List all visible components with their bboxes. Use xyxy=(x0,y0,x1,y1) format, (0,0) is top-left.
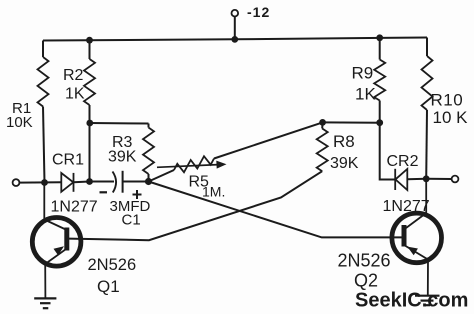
resistor R9 xyxy=(374,60,385,101)
svg-text:1K: 1K xyxy=(65,86,85,103)
wire Q2 collector xyxy=(404,179,426,230)
label minus sign C1 xyxy=(100,191,108,193)
wire rail to R1 xyxy=(42,41,44,58)
wire C1 right plate to node xyxy=(123,181,149,183)
arrow R5 wiper xyxy=(157,161,227,169)
wire input to CR1 xyxy=(19,181,61,183)
resistor R10 xyxy=(422,56,433,110)
wire node to C1 left plate xyxy=(90,181,115,183)
svg-text:2N526: 2N526 xyxy=(88,256,137,274)
node junction C1-R3-R5 xyxy=(145,178,152,185)
wire R3 to C1 node xyxy=(148,174,150,182)
node junction -12 on rail xyxy=(231,36,238,43)
node junction input-R1-Q1 collector xyxy=(41,179,48,186)
svg-text:10 K: 10 K xyxy=(433,108,469,127)
transistor Q2 base bar xyxy=(402,225,407,247)
wire output node to terminal xyxy=(426,178,451,180)
svg-text:R10: R10 xyxy=(431,91,464,110)
wire R10 to output node xyxy=(425,110,428,179)
node junction R9 top on rail xyxy=(376,34,383,41)
wire CR2 to output node xyxy=(407,178,426,181)
node junction CR1-R2 branch-C1 xyxy=(86,178,93,185)
svg-text:39K: 39K xyxy=(330,155,359,172)
wire -12 terminal stub xyxy=(234,16,236,39)
label plus sign C1 xyxy=(133,190,142,199)
wire R2 node down to CR1 node xyxy=(89,123,91,182)
ground Q1 xyxy=(34,298,56,308)
svg-text:CR1: CR1 xyxy=(52,152,84,169)
wire top supply rail xyxy=(43,38,427,41)
svg-text:R9: R9 xyxy=(352,64,374,83)
wire R8 node to R9 node xyxy=(323,121,380,123)
capacitor C1 straight plate xyxy=(122,171,124,193)
wire R5 to R8 node diagonal xyxy=(214,122,323,158)
diode CR1 xyxy=(61,173,73,192)
terminal input left xyxy=(13,179,20,186)
svg-text:-12: -12 xyxy=(247,4,270,20)
wire R2 to node xyxy=(89,105,91,123)
svg-text:1N277: 1N277 xyxy=(51,199,98,216)
svg-text:10K: 10K xyxy=(6,114,33,131)
svg-text:1M.: 1M. xyxy=(202,184,225,200)
resistor R3 xyxy=(143,128,154,175)
svg-text:Q2: Q2 xyxy=(354,271,378,291)
wire R1 to input node xyxy=(43,107,45,183)
svg-text:CR2: CR2 xyxy=(387,153,419,170)
resistor R2 xyxy=(84,59,95,105)
terminal -12 supply xyxy=(232,10,239,17)
resistor R5 xyxy=(174,156,214,172)
ground Q2 xyxy=(415,296,440,306)
wire node to R5 xyxy=(149,170,175,182)
transistor Q1 base bar xyxy=(64,228,69,251)
wire Q1 collector xyxy=(44,183,67,231)
arrow Q1 emitter xyxy=(54,246,65,255)
arrow Q2 emitter xyxy=(407,247,418,256)
resistor R8 xyxy=(317,129,328,172)
svg-text:39K: 39K xyxy=(108,149,137,166)
wire CR1 cathode to node xyxy=(74,181,90,184)
node junction R9 bottom xyxy=(376,119,383,126)
wire Q2 emitter xyxy=(404,245,428,296)
transistor Q1 body xyxy=(32,218,81,267)
diode CR2 xyxy=(395,169,407,190)
svg-text:R2: R2 xyxy=(63,67,84,84)
wire node to R3 top xyxy=(90,122,149,125)
terminal output right xyxy=(452,176,459,183)
wire rail corner to R10 xyxy=(426,38,428,57)
wire rail to R9 xyxy=(379,38,381,60)
wire rail to R2 xyxy=(89,40,91,59)
wire R3 top lead xyxy=(148,124,150,128)
wire Q1 emitter xyxy=(45,249,67,299)
node junction R8 top xyxy=(319,119,326,126)
wire R8 top lead xyxy=(321,122,323,128)
svg-text:Q1: Q1 xyxy=(97,277,120,296)
wire R9 to node xyxy=(379,101,381,123)
svg-text:C1: C1 xyxy=(122,212,141,229)
svg-text:SeekIC.com: SeekIC.com xyxy=(355,290,468,312)
svg-text:2N526: 2N526 xyxy=(338,251,391,271)
transistor Q2 body xyxy=(392,213,442,263)
svg-text:R8: R8 xyxy=(333,132,355,151)
capacitor C1 curved plate xyxy=(113,172,117,193)
node junction R2 top on rail xyxy=(86,37,93,44)
node junction R2-R3 xyxy=(86,120,93,127)
wire C1 node to Q2 base diagonal xyxy=(149,182,402,238)
node junction CR2-R10-Q2 collector xyxy=(423,175,430,182)
resistor R1 xyxy=(38,57,49,107)
svg-text:1K: 1K xyxy=(355,85,376,104)
wire R8 bottom to Q1 base diagonal xyxy=(69,171,322,240)
wire R9 node down to CR2 xyxy=(380,123,395,180)
